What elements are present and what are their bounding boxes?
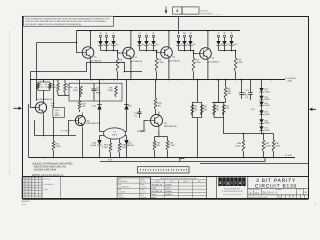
- svg-text:2N2894: 2N2894: [165, 190, 171, 193]
- svg-text:1,500: 1,500: [121, 146, 127, 149]
- blank box top: [182, 7, 199, 14]
- parts desc column: [60, 177, 62, 199]
- svg-text:D-664: D-664: [90, 144, 97, 147]
- svg-text:TRANSISTOR & DIODE CONVERSION: TRANSISTOR & DIODE CONVERSION CHART: [160, 177, 198, 180]
- resistor R27: [119, 139, 121, 143]
- svg-text:10-6-66: 10-6-66: [141, 196, 147, 199]
- diode D9: [188, 41, 192, 45]
- svg-text:1,500: 1,500: [169, 144, 175, 147]
- wire base stub Q3: [157, 51, 158, 53]
- filler cell: [206, 177, 216, 199]
- diode D5: [144, 41, 148, 45]
- svg-text:M: M: [183, 32, 185, 35]
- resistor R4: [115, 86, 118, 97]
- svg-text:DEC2894-2B: DEC2894-2B: [130, 60, 142, 63]
- svg-text:D-662: D-662: [264, 104, 269, 107]
- svg-text:D-662: D-662: [264, 98, 269, 101]
- svg-text:H: H: [139, 32, 141, 35]
- wire base stub Q1: [77, 31, 80, 53]
- svg-text:10%: 10%: [227, 92, 231, 95]
- svg-text:9-7-66: 9-7-66: [141, 180, 146, 183]
- parts list mini table: [22, 177, 42, 199]
- svg-text:B130-0-1: B130-0-1: [22, 200, 31, 203]
- transistor Q1: [82, 47, 94, 59]
- capacitor C15: [250, 80, 252, 93]
- wire Q5 collector: [43, 80, 45, 83]
- diode D22: [126, 80, 128, 105]
- svg-text:C15: C15: [246, 89, 249, 92]
- resistor R32 680: [154, 137, 156, 141]
- wire emitter drop Q2: [130, 61, 132, 79]
- svg-text:50: 50: [279, 196, 281, 199]
- wire output loop box: [69, 83, 122, 101]
- svg-text:D-662: D-662: [264, 113, 269, 116]
- svg-text:E: E: [106, 32, 108, 35]
- wire stub bracket: [180, 158, 185, 161]
- wire base stub Q4: [194, 51, 197, 54]
- resistor R14: [235, 51, 237, 59]
- wire emitter drop Q3: [168, 61, 170, 80]
- wire horizontal y135: [35, 135, 77, 137]
- svg-text:R.BUSFIELD: R.BUSFIELD: [118, 180, 129, 183]
- svg-text:-15V: -15V: [108, 158, 113, 161]
- resistor R36: [243, 134, 245, 141]
- resistor R43: [214, 102, 224, 117]
- resistor R2: [64, 80, 66, 83]
- svg-text:2N2894: 2N2894: [165, 183, 171, 186]
- svg-text:DEC2894-2B: DEC2894-2B: [168, 59, 180, 62]
- wire gate bus group 4: [219, 50, 236, 52]
- title block left border: [247, 177, 249, 199]
- wire diode chain vertical: [261, 80, 263, 134]
- diode D7: [176, 41, 180, 45]
- svg-text:1,500: 1,500: [102, 146, 108, 149]
- svg-text:D-664: D-664: [44, 188, 49, 191]
- wire R1 R2 join: [58, 95, 69, 97]
- wire stub y102.5: [212, 102, 226, 104]
- svg-text:1,500: 1,500: [108, 89, 114, 92]
- transistor Q6: [75, 116, 85, 126]
- sheet zone box top: [173, 7, 183, 14]
- diode D1: [98, 41, 102, 45]
- margin arrow left: [14, 107, 21, 109]
- svg-text:10%: 10%: [215, 109, 219, 112]
- svg-text:i: i: [232, 180, 233, 185]
- notice text box: [24, 16, 114, 26]
- svg-text:3,000: 3,000: [265, 145, 271, 148]
- wire emitter drop Q1: [89, 61, 91, 80]
- logo block frame: [216, 177, 248, 199]
- svg-text:3 BIT PARITY: 3 BIT PARITY: [256, 178, 296, 184]
- svg-text:N: N: [190, 32, 192, 35]
- svg-text:MFD: MFD: [55, 114, 60, 117]
- wire Q5 base from border: [31, 72, 36, 108]
- svg-text:D-662: D-662: [264, 122, 269, 125]
- svg-text:THIS SCHEMATIC IS FURNISHED ON: THIS SCHEMATIC IS FURNISHED ONLY FOR TES…: [25, 17, 110, 20]
- wire gate bus group 1: [101, 50, 118, 52]
- svg-text:P: P: [218, 32, 220, 35]
- svg-text:DEC2894-2B: DEC2894-2B: [207, 60, 219, 63]
- wire collector drop Q3: [168, 31, 170, 46]
- wire collector drop Q2: [130, 31, 132, 46]
- diode D2: [104, 41, 108, 45]
- resistor R22 750: [79, 80, 81, 102]
- svg-text:1,500: 1,500: [45, 85, 49, 88]
- diode D10: [216, 41, 220, 45]
- svg-text:-15V: -15V: [251, 108, 256, 111]
- transistor Q3: [161, 47, 173, 59]
- svg-text:COPYRIGHT 1966 BY DIGITAL EQUI: COPYRIGHT 1966 BY DIGITAL EQUIPMENT CORP…: [25, 23, 81, 26]
- svg-text:DEC2894-2B: DEC2894-2B: [151, 183, 163, 186]
- svg-text:10%: 10%: [203, 109, 207, 112]
- svg-text:B: B: [250, 192, 252, 195]
- resistor R1 R2 box: [38, 82, 50, 90]
- wire right band segment: [200, 163, 308, 165]
- margin arrow right: [311, 108, 316, 110]
- svg-text:B130-0-1: B130-0-1: [263, 192, 278, 195]
- wire collector drop Q4: [207, 31, 209, 47]
- svg-text:MAYNARD, MASSACHUSETTS: MAYNARD, MASSACHUSETTS: [223, 194, 242, 196]
- svg-text:1,500: 1,500: [195, 61, 201, 64]
- wire Q7 base: [140, 121, 148, 132]
- capacitor C2: [93, 83, 95, 89]
- transistor Q2: [123, 47, 135, 59]
- svg-text:D-664: D-664: [128, 144, 135, 147]
- wire drop to resistor pair 2: [218, 80, 220, 103]
- transistor diode conversion chart: [151, 177, 207, 199]
- wire lower horizontal segment: [100, 158, 265, 162]
- wire GND bus C: [30, 79, 285, 81]
- connector pin strip: [138, 167, 190, 173]
- wire -15V bus B: [29, 157, 295, 159]
- wire base Q6 from y135: [69, 121, 72, 136]
- svg-text:10%: 10%: [193, 109, 197, 112]
- wire base stub Q2: [118, 51, 120, 54]
- svg-text:1N645: 1N645: [165, 187, 170, 190]
- diode D11: [222, 41, 226, 45]
- resistor R33 1500: [167, 137, 169, 141]
- fold arrow top: [165, 7, 167, 14]
- svg-text:MFD: MFD: [96, 92, 101, 95]
- transistor Q7: [151, 115, 163, 127]
- svg-text:DEC2894-2B: DEC2894-2B: [164, 125, 177, 128]
- svg-text:1,500: 1,500: [158, 61, 164, 64]
- svg-text:B.JONES: B.JONES: [118, 191, 126, 194]
- wire join y136.7: [155, 136, 168, 138]
- wire box2 corner down: [224, 118, 274, 134]
- svg-text:GND: GND: [288, 80, 293, 83]
- wire left feed vertical: [36, 43, 38, 102]
- diode D6: [151, 41, 155, 45]
- svg-text:1,500: 1,500: [73, 89, 79, 92]
- wire top-left step: [37, 42, 77, 44]
- svg-text:B130-0-1: B130-0-1: [44, 177, 51, 180]
- resistor R3: [80, 86, 83, 97]
- diode D25: [259, 110, 263, 114]
- wire +10V top rail: [77, 30, 241, 32]
- svg-text:l: l: [243, 180, 244, 185]
- svg-text:←B -15V: ←B -15V: [283, 154, 292, 157]
- wire drop to resistor pair 1: [197, 80, 199, 103]
- diode D22: [259, 88, 263, 92]
- svg-text:N.THOMPSON: N.THOMPSON: [118, 185, 130, 188]
- diode D26: [259, 119, 263, 123]
- diode D23: [99, 136, 101, 141]
- svg-text:1.5K: 1.5K: [225, 107, 230, 110]
- wire gate bus group 3: [179, 50, 194, 52]
- resistor R37: [263, 134, 265, 141]
- svg-text:D-662: D-662: [264, 90, 269, 93]
- svg-text:CS: CS: [255, 192, 259, 195]
- wire gate bus group 2: [140, 50, 157, 52]
- diode D24: [259, 102, 263, 106]
- diode D24: [126, 136, 128, 141]
- diode D4: [137, 41, 141, 45]
- digital logo boxes: [218, 177, 222, 186]
- wire box1 down to bus B: [197, 118, 199, 158]
- wire left rail x28.8: [28, 104, 30, 158]
- svg-text:1,500: 1,500: [39, 85, 43, 88]
- svg-text:S: S: [231, 32, 233, 35]
- capacitor C20 box: [53, 107, 65, 117]
- diode D21: [99, 80, 101, 105]
- diode D23: [259, 96, 263, 100]
- svg-text:E Q U I P M E N T: E Q U I P M E N T: [224, 187, 241, 190]
- diode D27: [259, 126, 263, 130]
- resistor R1: [57, 80, 59, 83]
- transformer T1: [104, 128, 126, 139]
- svg-text:9-7-66: 9-7-66: [141, 191, 146, 194]
- resistor R11: [193, 51, 195, 59]
- diode D3: [111, 41, 115, 45]
- svg-text:10-3-66: 10-3-66: [141, 185, 147, 188]
- svg-text:J.SMITH: J.SMITH: [118, 196, 125, 199]
- resistor R41: [192, 102, 201, 117]
- svg-text:DEC2894-1B: DEC2894-1B: [151, 190, 163, 193]
- wire Q6 emitter down: [82, 129, 84, 158]
- resistor R8: [156, 51, 158, 59]
- resistor R26: [110, 139, 112, 143]
- svg-text:1,500: 1,500: [237, 61, 243, 64]
- svg-text:MA-8: MA-8: [151, 196, 155, 199]
- bottom band top rule: [23, 176, 309, 178]
- svg-text:DEC2894-2B: DEC2894-2B: [44, 183, 55, 186]
- svg-text:C O R P O R A T I O N: C O R P O R A T I O N: [222, 190, 243, 193]
- wire Q7 emitter down: [158, 130, 160, 137]
- svg-text:6.8: 6.8: [246, 96, 249, 99]
- svg-text:MA-8: MA-8: [112, 133, 118, 136]
- svg-text:PRINTED CIRCUIT REV.: PRINTED CIRCUIT REV.: [249, 196, 269, 199]
- wire Q5 emitter down: [43, 115, 45, 135]
- sheet border frame: [23, 17, 309, 199]
- svg-text:DEC2894-2B: DEC2894-2B: [87, 122, 100, 125]
- svg-text:1,500: 1,500: [235, 145, 241, 148]
- svg-text:K: K: [153, 32, 155, 35]
- svg-text:1N3606: 1N3606: [165, 193, 171, 196]
- wire collector drop Q1: [89, 31, 91, 46]
- svg-text:D: D: [100, 32, 102, 35]
- svg-text:i: i: [224, 180, 225, 185]
- transistor Q4: [200, 48, 212, 60]
- svg-text:REV: REV: [299, 189, 302, 191]
- resistor R28 750: [155, 80, 157, 99]
- resistor R40: [225, 80, 227, 88]
- svg-text:R: R: [224, 32, 226, 35]
- capacitor C4: [241, 80, 243, 93]
- wire T1 leads: [100, 131, 105, 133]
- bottom border emphasis: [23, 198, 309, 200]
- diode D8: [182, 41, 186, 45]
- svg-text:←C,A SPARE: ←C,A SPARE: [284, 77, 297, 80]
- signoff block: [117, 178, 150, 199]
- svg-text:D-664: D-664: [151, 193, 156, 196]
- wire top border drop at x179: [178, 17, 180, 34]
- resistor R38: [273, 134, 275, 141]
- svg-text:D-662: D-662: [151, 187, 156, 190]
- svg-text:7,500: 7,500: [55, 145, 61, 148]
- svg-text:D-662: D-662: [264, 129, 269, 132]
- svg-text:1,500: 1,500: [67, 86, 73, 89]
- svg-text:1,500: 1,500: [275, 145, 281, 148]
- svg-text:DIODES ARE D664: DIODES ARE D664: [34, 168, 57, 171]
- diode D12: [229, 41, 233, 45]
- resistor R5: [117, 51, 119, 59]
- svg-text:DEC2894-2B: DEC2894-2B: [90, 59, 102, 62]
- svg-text:Q5 DEC2894-2B: Q5 DEC2894-2B: [37, 98, 53, 101]
- svg-text:B-CS-B130-0-1: B-CS-B130-0-1: [201, 12, 213, 15]
- svg-text:CIRCUITS ARE PROPRIETARY IN NA: CIRCUITS ARE PROPRIETARY IN NATURE AND S…: [25, 20, 107, 23]
- wire emitter drop Q4: [207, 62, 209, 80]
- size code number rev row: [248, 194, 308, 196]
- resistor R13 7500: [53, 80, 55, 108]
